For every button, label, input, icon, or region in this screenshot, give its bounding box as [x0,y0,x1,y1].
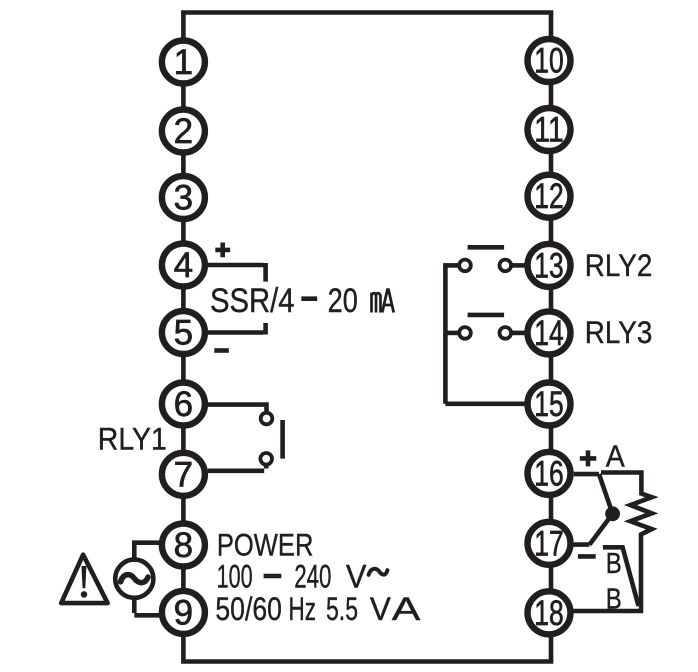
wire terminal 8 to AC source [134,540,159,557]
RLY2 right contact [500,260,512,272]
wire AC source to terminal 9 [134,600,159,615]
RLY2 left contact [459,260,471,272]
svg-text:Hz: Hz [289,591,317,627]
wire B from terminal 17 node [603,547,639,606]
RLY3 contact blade [468,313,505,318]
tilde after V (AC symbol) [369,569,388,575]
warning triangle [61,555,107,603]
terminal 16 [528,452,571,495]
svg-text:A: A [606,438,625,473]
svg-text:V: V [370,591,391,627]
svg-text:16: 16 [534,454,563,493]
terminal 2 [162,110,205,153]
wire RLY2 right contact to terminal 13 [512,263,525,268]
svg-text:13: 13 [534,246,563,285]
minus sign terminal 5 [214,348,229,353]
terminal 10 [528,39,571,82]
terminal 17 [528,522,571,565]
svg-text:1: 1 [174,43,193,82]
RLY3 right contact [500,327,512,339]
terminal 8 [162,524,205,567]
svg-text:A: A [392,591,421,627]
svg-text:V: V [346,559,367,595]
wire right rail (terminals 10-18 column) [549,13,554,662]
wire stub to RLY2 left contact [445,263,458,268]
wire terminal 5 to SSR - stub [208,323,266,335]
wire terminal 17 stub [573,542,589,547]
svg-text:18: 18 [534,594,563,633]
wire stub to RLY3 left contact [445,331,458,336]
terminal 3 [162,176,205,219]
wire diagonal junction dot to terminal 17 [590,514,613,545]
plus sign terminal 16 [580,450,597,466]
terminal 1 [162,41,205,84]
wire diagonal terminal 16 to junction dot [599,474,613,514]
terminal 7 [162,453,205,496]
svg-text:7: 7 [174,455,193,494]
wire relay common rail to terminal 15 [445,263,524,404]
RLY3 left contact [459,327,471,339]
terminal 13 [528,244,571,287]
RLY1 lower contact [260,453,272,465]
wire left rail (terminals 1-9 column) [181,13,186,662]
svg-text:11: 11 [534,111,563,150]
wire bottom frame [181,659,553,664]
minus sign terminal 17 [578,554,596,559]
svg-text:15: 15 [534,385,563,424]
RLY1 contact blade [280,420,285,459]
plus sign terminal 4 [215,243,230,258]
terminal 11 [528,108,571,151]
terminal 5 [162,311,205,354]
junction dot node [605,506,620,521]
terminal 9 [162,591,205,634]
svg-text:240: 240 [294,559,331,595]
AC source sine wave [121,575,148,583]
svg-text:12: 12 [534,177,563,216]
AC source circle [115,560,153,598]
wire terminal 6 to RLY1 upper contact [208,402,267,412]
svg-text:RLY2: RLY2 [585,247,653,283]
svg-text:2: 2 [174,112,193,151]
terminal 6 [162,383,205,426]
terminal 18 [528,591,571,634]
svg-text:RLY1: RLY1 [98,421,167,457]
svg-text:50/60: 50/60 [215,591,282,627]
svg-text:3: 3 [174,179,193,218]
svg-text:10: 10 [534,42,563,81]
svg-text:B: B [606,584,622,616]
RLY2 contact blade [468,245,505,250]
wire top frame [181,10,553,15]
svg-text:14: 14 [534,314,563,353]
RTD sensor lead A, zigzag element and lead B [573,473,652,612]
warning exclamation mark [81,566,86,588]
dash in 100-240 label [264,574,282,579]
svg-text:4: 4 [174,246,193,285]
svg-text:6: 6 [174,385,193,424]
wire RLY3 right contact to terminal 14 [512,331,525,336]
svg-text:8: 8 [174,526,193,565]
svg-text:17: 17 [534,524,563,563]
svg-text:POWER: POWER [217,527,314,563]
wire RLY1 lower contact to terminal 7 [208,465,267,471]
svg-text:9: 9 [174,593,193,632]
label mA (drawn glyphs) [372,290,394,313]
svg-text:RLY3: RLY3 [585,314,653,350]
svg-text:100: 100 [217,559,253,595]
svg-text:5.5: 5.5 [326,591,358,627]
svg-text:B: B [606,548,622,580]
terminal 12 [528,175,571,218]
svg-text:5: 5 [174,314,193,353]
svg-text:SSR/4: SSR/4 [210,282,295,320]
terminal 14 [528,311,571,354]
RLY1 upper contact [261,413,273,425]
svg-text:20: 20 [328,282,358,320]
terminal 15 [528,383,571,426]
terminal 4 [162,244,205,287]
wire terminal 16 to junction [574,472,599,477]
wire terminal 4 to SSR + stub [208,263,266,282]
dash in SSR label [301,296,317,301]
